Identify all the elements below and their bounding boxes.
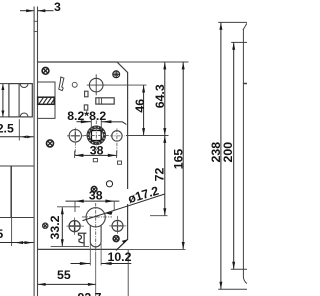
svg-text:165: 165: [172, 149, 186, 170]
svg-text:10.2: 10.2: [108, 250, 132, 264]
svg-text:46: 46: [133, 99, 147, 113]
svg-text:12.5: 12.5: [0, 121, 14, 135]
svg-text:8.2*8.2: 8.2*8.2: [67, 109, 106, 123]
svg-text:200: 200: [221, 142, 235, 163]
svg-text:38: 38: [90, 144, 104, 158]
svg-text:38: 38: [89, 189, 103, 203]
svg-text:92.7: 92.7: [78, 290, 102, 296]
svg-text:ø17.2: ø17.2: [126, 184, 160, 207]
svg-text:55: 55: [57, 268, 71, 282]
svg-text:72: 72: [153, 168, 167, 182]
svg-text:64.3: 64.3: [153, 84, 167, 108]
svg-text:16.5: 16.5: [0, 227, 3, 241]
svg-text:3: 3: [54, 0, 61, 14]
svg-text:33.2: 33.2: [48, 215, 62, 239]
